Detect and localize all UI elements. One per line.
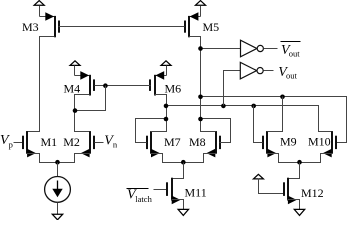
wire M8 drain to node A [201, 119, 216, 132]
svg-text:M4: M4 [64, 82, 81, 96]
transistor M6 (PMOS) [154, 75, 156, 96]
junction on gate wire [103, 83, 108, 88]
wire node B bus (M6 drain net) [167, 106, 332, 132]
transistor M5 (PMOS) [188, 16, 190, 37]
junction node B at inverter input [221, 104, 226, 109]
svg-text:p: p [9, 140, 13, 150]
wire M6 drain down to node B [155, 95, 167, 119]
wire inverter 1 output [264, 48, 278, 50]
ground below M11 [178, 209, 188, 215]
transistor M4 (PMOS) [89, 75, 91, 96]
wire VDD to M5 source [200, 6, 202, 17]
wire M9 drain to node A [268, 97, 283, 132]
svg-text:M5: M5 [203, 20, 220, 34]
wire node B to inverter 2 input [224, 71, 241, 106]
wire M9 gate to node B [254, 106, 263, 143]
svg-text:M12: M12 [301, 186, 324, 200]
svg-text:M11: M11 [185, 185, 207, 199]
junction tail node [55, 160, 60, 165]
wire M4 drain feedback to gate [75, 86, 106, 111]
wire inverter 2 output [264, 70, 274, 72]
junction node A at M9 drain [280, 95, 285, 100]
transistor M8 (NMOS latch) [215, 131, 217, 154]
inverter U1 [241, 40, 257, 57]
label Vlatch-bar [127, 188, 149, 190]
svg-text:M2: M2 [63, 135, 80, 149]
vdd symbol above M3 [34, 1, 44, 6]
junction latch tail node [181, 160, 186, 165]
vdd symbol at M12 gate [253, 174, 263, 179]
svg-text:out: out [289, 48, 301, 58]
wire M3 gate to M5 gate [59, 26, 185, 28]
label Vout-bar [281, 41, 301, 43]
transistor M10 (NMOS cross-coupled) [331, 131, 333, 154]
transistor M9 (NMOS cross-coupled) [266, 131, 268, 154]
wire VDD to M12 gate [259, 179, 284, 194]
wire M4 drain down to M2 drain [75, 95, 90, 132]
wire node A to inverter 1 input [201, 48, 241, 50]
wire M8 gate loop to node A [201, 119, 231, 143]
wire tail node to current source [57, 163, 59, 177]
svg-text:out: out [286, 70, 298, 80]
junction M4 drain node [73, 108, 78, 113]
vdd symbol above M6 [161, 61, 171, 66]
current source I1 [45, 177, 71, 203]
wire VDD to M6 source [166, 66, 168, 76]
wire M1 M2 sources to tail node [27, 154, 90, 163]
transistor M11 (NMOS switch) [171, 178, 173, 201]
transistor M7 (NMOS latch) [150, 131, 152, 154]
transistor M1 (NMOS) [26, 131, 28, 154]
junction node B left end [164, 104, 169, 109]
junction node B at M9 gate [251, 104, 256, 109]
wire M11 source to ground [172, 200, 184, 210]
svg-text:M10: M10 [308, 135, 331, 149]
transistor M12 (NMOS) [287, 178, 289, 201]
transistor M3 (PMOS) [54, 16, 56, 37]
svg-text:M8: M8 [189, 135, 206, 149]
wire M2 gate to Vn [95, 142, 104, 144]
ground below M12 [294, 209, 304, 215]
svg-text:n: n [113, 140, 118, 150]
svg-text:M3: M3 [22, 20, 39, 34]
vdd symbol above M4 [70, 61, 80, 66]
svg-text:latch: latch [135, 194, 152, 204]
vdd symbol above M5 [196, 1, 206, 6]
wire current source to ground [57, 203, 59, 215]
wire M9 M10 sources to right tail [268, 154, 332, 163]
wire VDD to M3 source [39, 6, 41, 17]
wire M3 drain down to M1 drain [27, 37, 55, 132]
wire node A bus (M5 drain net) [201, 97, 347, 143]
wire VDD to M4 source [74, 66, 76, 76]
svg-text:M1: M1 [41, 135, 58, 149]
junction M8 drain-gate node [198, 117, 203, 122]
wire M7 drain to node B [151, 119, 167, 132]
junction right tail node [297, 160, 302, 165]
wire M12 source to ground [288, 200, 300, 210]
wire M7 gate loop to node B [136, 119, 167, 143]
svg-text:M7: M7 [164, 135, 181, 149]
wire right tail to M12 drain [288, 163, 300, 179]
inverter U2 [240, 62, 256, 79]
wire M5 drain down to node A [189, 37, 201, 119]
wire M4 gate to M6 gate [95, 85, 151, 87]
svg-text:M9: M9 [280, 135, 297, 149]
junction at M5 drain / inverter 1 [198, 46, 203, 51]
wire Vp to M1 gate [14, 142, 23, 144]
junction node A at M5 vertical [198, 95, 203, 100]
wire M7 M8 sources to latch tail [151, 154, 216, 163]
ground below current source [52, 214, 62, 220]
wire latch tail to M11 drain [172, 163, 184, 179]
junction M7 drain-gate node [164, 117, 169, 122]
wire Vlatch to M11 gate [154, 189, 168, 191]
svg-text:M6: M6 [165, 82, 182, 96]
transistor M2 (NMOS) [89, 131, 91, 154]
